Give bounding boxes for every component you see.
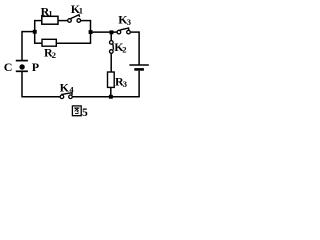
wire R3 to bottom wire bbox=[110, 88, 112, 97]
caption figure 5 (CJK tu character drawn as paths) bbox=[72, 106, 88, 119]
switch K1 right terminal bbox=[77, 19, 81, 23]
wire top branch left (to R1) bbox=[34, 20, 42, 22]
label P bbox=[32, 60, 39, 74]
wire right rail upper (corner down to battery) bbox=[138, 31, 140, 64]
particle P (charged drop between plates) bbox=[19, 64, 24, 69]
wire bottom right segment bbox=[111, 96, 140, 98]
svg-text:3: 3 bbox=[123, 79, 127, 89]
wire bottom middle segment (node D to K4) bbox=[73, 96, 111, 98]
switch K4 lever bbox=[61, 93, 72, 95]
resistor R2 bbox=[42, 39, 56, 46]
svg-text:C: C bbox=[4, 60, 13, 74]
label R3 bbox=[115, 74, 127, 88]
label R1 bbox=[41, 4, 53, 18]
wire K3 to right rail corner bbox=[131, 31, 140, 33]
wire left rail lower (capacitor bottom to bottom corner) bbox=[21, 71, 23, 97]
wire K2 to R3 bbox=[110, 53, 112, 72]
switch K2 bottom terminal bbox=[110, 50, 114, 54]
svg-text:3: 3 bbox=[127, 17, 131, 27]
wire top branch down to node B bbox=[90, 20, 92, 32]
svg-text:P: P bbox=[32, 60, 39, 74]
switch K3 left terminal bbox=[117, 30, 121, 34]
label K3 bbox=[118, 13, 131, 27]
label K2 bbox=[114, 40, 126, 55]
battery short plate (negative) bbox=[134, 68, 144, 71]
switch K2 lever bbox=[112, 44, 115, 50]
resistor R3 bbox=[108, 72, 115, 87]
wire R2 branch left bbox=[34, 42, 42, 44]
label C bbox=[4, 60, 13, 74]
node C bbox=[110, 30, 114, 34]
wire K1 to right corner bbox=[81, 20, 91, 22]
node B bbox=[89, 30, 93, 34]
svg-text:5: 5 bbox=[82, 107, 88, 119]
wire node C to K3 bbox=[111, 31, 117, 33]
svg-text:2: 2 bbox=[122, 45, 126, 55]
wire node A down to R2 branch bbox=[34, 32, 36, 44]
svg-text:1: 1 bbox=[48, 9, 52, 19]
svg-text:4: 4 bbox=[69, 84, 74, 94]
wire riser up to node B bbox=[90, 32, 92, 44]
switch K1 lever bbox=[70, 15, 79, 19]
svg-text:1: 1 bbox=[79, 6, 83, 16]
switch K3 lever bbox=[120, 28, 129, 30]
label R2 bbox=[44, 46, 56, 61]
switch K3 right terminal bbox=[127, 30, 131, 34]
svg-text:2: 2 bbox=[52, 50, 56, 60]
resistor R1 bbox=[42, 16, 58, 24]
svg-text:K: K bbox=[60, 80, 70, 94]
wire right rail lower (battery down to bottom corner) bbox=[138, 71, 140, 97]
wire left rail upper (corner down to capacitor top plate) bbox=[21, 31, 23, 61]
node D (R3 to bottom wire junction) bbox=[109, 95, 113, 99]
wire R1 to K1 bbox=[58, 20, 68, 22]
battery long plate (positive) bbox=[129, 64, 148, 66]
switch K4 right terminal bbox=[69, 95, 73, 99]
capacitor C bottom plate bbox=[16, 70, 28, 72]
switch K2 top terminal bbox=[110, 41, 114, 45]
wire bottom left segment (K4 to left corner) bbox=[22, 96, 60, 98]
capacitor C top plate bbox=[16, 60, 28, 62]
label K1 bbox=[71, 2, 83, 16]
label K4 bbox=[60, 80, 75, 94]
wire node B to node C bbox=[91, 31, 112, 33]
switch K4 left terminal bbox=[60, 95, 64, 99]
switch K1 left terminal bbox=[68, 19, 72, 23]
wire R2 to node B riser bbox=[56, 42, 90, 44]
wire left-top horizontal (corner to node A) bbox=[22, 31, 35, 33]
wire node A up to top branch bbox=[34, 21, 36, 32]
node A bbox=[33, 30, 37, 34]
wire node C down to K2 bbox=[110, 34, 112, 41]
